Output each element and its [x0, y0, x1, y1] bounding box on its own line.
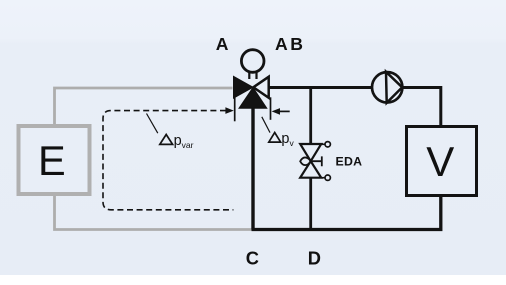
- pump P1: [372, 72, 402, 102]
- valve actuator head: [241, 50, 264, 73]
- wire gray supply from E top to valve port A: [55, 88, 233, 125]
- label dp_var delta glyph: [160, 135, 173, 145]
- dashed control impulse line (dp_var loop): [103, 111, 233, 210]
- dp marker bar right of valve: [270, 97, 272, 120]
- EDA valve body (bowtie): [300, 144, 321, 178]
- wire valve C pipe: [251, 107, 254, 230]
- EDA impulse connector bottom: [321, 177, 325, 179]
- EDA impulse port circle bottom: [325, 175, 330, 180]
- label leader line dp_var: [147, 114, 158, 134]
- wire top main line valve AB to V box: [268, 88, 441, 127]
- box V (consumer): [407, 127, 477, 196]
- EDA impulse connector top: [321, 143, 325, 145]
- valve actuator stem: [249, 72, 256, 79]
- three-way valve port C (filled bottom triangle): [239, 88, 267, 109]
- svg-text:EDA: EDA: [336, 154, 363, 168]
- wire EDA branch upper: [309, 88, 312, 145]
- EDA impulse port circle top: [325, 142, 330, 147]
- arrow dp_v pointing left: [278, 110, 290, 112]
- EDA setting T-bar: [311, 156, 322, 166]
- dp marker bar left of valve: [234, 98, 236, 122]
- svg-text:D: D: [308, 248, 321, 269]
- wire EDA branch lower: [309, 178, 312, 230]
- three-way valve port AB (open right triangle): [253, 77, 268, 98]
- svg-text:V: V: [426, 138, 454, 185]
- svg-text:AB: AB: [275, 34, 306, 54]
- EDA membrane lens: [300, 157, 311, 165]
- label dp_v delta glyph: [269, 133, 281, 143]
- svg-text:E: E: [38, 137, 66, 184]
- svg-text:A: A: [216, 34, 229, 54]
- svg-text:C: C: [246, 248, 259, 269]
- wire gray return from E bottom to node C: [55, 195, 253, 230]
- wire bottom line C to D to V: [252, 196, 441, 230]
- arrowhead of dashed line pointing right: [225, 107, 233, 114]
- label leader line dp_v: [262, 117, 270, 133]
- three-way valve port A (filled left triangle): [234, 76, 254, 98]
- box E (energy source): [19, 126, 90, 194]
